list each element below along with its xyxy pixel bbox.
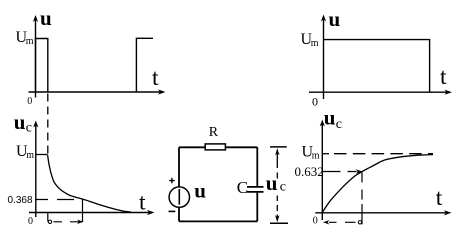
node uc measurement dashed arrow bbox=[270, 147, 288, 223]
wire left (circuit) bbox=[178, 147, 180, 221]
axis t (bottom-left graph, horizontal) bbox=[29, 210, 155, 215]
svg-text:u: u bbox=[324, 106, 336, 130]
label uc (bottom-right axis) bbox=[324, 106, 342, 132]
wire pulse 2 waveform (top-left) bbox=[136, 38, 153, 92]
node 0.632 level dashed line with arrow bbox=[322, 169, 362, 173]
label Um (bottom-right) bbox=[302, 143, 320, 161]
svg-text:c: c bbox=[336, 117, 342, 132]
svg-text:R: R bbox=[209, 125, 219, 140]
label Um (top-left) bbox=[16, 29, 34, 47]
svg-text:0: 0 bbox=[27, 96, 32, 107]
axis t (top-left graph, horizontal) bbox=[29, 89, 166, 94]
wire top (circuit) bbox=[179, 146, 257, 148]
wire pulse 1 waveform (top-left) bbox=[36, 39, 48, 93]
axis t (bottom-right graph, horizontal) bbox=[315, 210, 451, 215]
svg-text:t: t bbox=[440, 64, 447, 90]
svg-text:u: u bbox=[194, 179, 206, 203]
svg-text:m: m bbox=[312, 150, 320, 161]
node Um level line (bottom-left) bbox=[36, 154, 48, 156]
voltage source u (circle symbol) bbox=[169, 187, 189, 207]
label - (source polarity) bbox=[169, 210, 176, 212]
wire discharge curve (bottom-left) bbox=[48, 155, 131, 212]
svg-text:c: c bbox=[280, 180, 286, 195]
node tau interval marker (bottom-right, below axis) bbox=[323, 220, 362, 224]
axis t (top-right graph, horizontal) bbox=[309, 90, 452, 95]
svg-text:m: m bbox=[311, 38, 319, 49]
node vertical marker at t=tau (bottom-right) bbox=[361, 173, 363, 225]
wire dashed drop line t1 (links pulse fall to discharge start) bbox=[47, 94, 49, 155]
axis uc (bottom-left graph, vertical) bbox=[33, 121, 38, 218]
axis u (top-left graph, vertical) bbox=[33, 15, 38, 98]
label Um (bottom-left) bbox=[16, 143, 34, 161]
svg-text:u: u bbox=[329, 7, 341, 31]
wire right (circuit) bbox=[256, 147, 258, 221]
label + (source polarity) bbox=[169, 178, 174, 183]
svg-text:0: 0 bbox=[312, 95, 318, 109]
svg-text:0: 0 bbox=[28, 216, 33, 227]
label uc (capacitor voltage) bbox=[266, 171, 286, 195]
wire bottom (circuit) bbox=[179, 220, 257, 222]
wire charge curve (bottom-right) bbox=[323, 155, 434, 213]
label Um (top-right) bbox=[301, 31, 319, 49]
svg-text:0.632: 0.632 bbox=[295, 164, 324, 179]
svg-text:C: C bbox=[237, 178, 248, 197]
svg-text:u: u bbox=[40, 6, 52, 30]
svg-text:t: t bbox=[152, 65, 159, 91]
node Um level dashed line (bottom-right) bbox=[322, 153, 433, 155]
svg-text:t: t bbox=[436, 185, 443, 211]
svg-text:m: m bbox=[26, 150, 34, 161]
svg-text:u: u bbox=[14, 110, 26, 134]
label uc (bottom-left axis) bbox=[14, 110, 32, 136]
svg-text:0.368: 0.368 bbox=[8, 195, 33, 206]
node 0.368 level dashed line bbox=[36, 199, 74, 201]
axis u (top-right graph, vertical) bbox=[321, 15, 326, 100]
svg-text:t: t bbox=[139, 190, 146, 216]
svg-text:0: 0 bbox=[313, 216, 318, 227]
svg-text:m: m bbox=[26, 36, 34, 47]
svg-text:u: u bbox=[266, 171, 278, 195]
wire step waveform (top-right) bbox=[324, 40, 430, 93]
axis uc (bottom-right graph, vertical) bbox=[320, 120, 325, 221]
node tau interval marker (bottom-left, below axis) bbox=[48, 213, 84, 224]
resistor R bbox=[205, 144, 225, 150]
capacitor C (plates) bbox=[247, 187, 264, 192]
node vertical marker at t=tau (bottom-left) bbox=[82, 199, 84, 222]
svg-text:c: c bbox=[26, 121, 32, 136]
